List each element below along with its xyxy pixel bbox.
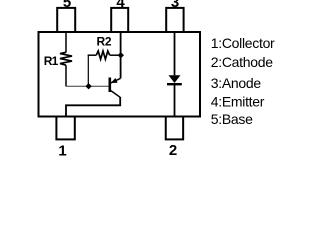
pin function list text	[211, 35, 275, 127]
svg-text:4: 4	[116, 0, 125, 11]
svg-text:1:Collector: 1:Collector	[211, 35, 275, 51]
svg-text:1: 1	[58, 142, 66, 159]
wire: pin 4 down to transistor emitter	[120, 32, 122, 78]
wire: R2 left lead horizontal	[88, 54, 97, 56]
diode D1 triangle (anode)	[169, 75, 181, 83]
wire: R2 right lead to emitter line	[110, 54, 121, 56]
wire: pin 5 to R1 top	[65, 32, 67, 53]
svg-text:2:Cathode: 2:Cathode	[211, 54, 273, 70]
resistor R2 zigzag	[96, 51, 109, 59]
svg-text:R1: R1	[44, 54, 59, 68]
wire: pin 3 down to diode anode	[174, 32, 176, 75]
transistor Q1 base bar	[109, 78, 112, 93]
pin 1 pad	[56, 117, 74, 140]
pin 4 pad	[111, 8, 128, 32]
svg-text:5:Base: 5:Base	[211, 111, 253, 127]
wire: base junction up to R2 left lead	[87, 55, 89, 87]
resistor R1 zigzag	[60, 52, 72, 65]
svg-text:4:Emitter: 4:Emitter	[211, 94, 265, 110]
svg-text:3: 3	[171, 0, 179, 11]
junction node on base rail	[86, 84, 91, 89]
transistor Q1 emitter arrowhead	[111, 78, 118, 83]
base rail wire (R1 to transistor base)	[66, 85, 109, 87]
transistor Q1 emitter diagonal with arrow into base (PNP)	[111, 78, 121, 83]
package body outline	[39, 32, 201, 117]
junction node on emitter wire	[118, 53, 123, 58]
pin 2 pad	[166, 117, 183, 140]
wire: collector down, across, down to pin 1	[66, 97, 120, 117]
svg-text:2: 2	[169, 142, 177, 159]
pin 3 pad	[166, 8, 183, 32]
svg-text:5: 5	[63, 0, 71, 11]
transistor Q1 collector diagonal	[111, 91, 120, 98]
pin 5 pad	[57, 8, 75, 32]
wire: R1 bottom to base rail	[65, 65, 67, 86]
diode D1 cathode bar	[167, 83, 182, 85]
svg-text:3:Anode: 3:Anode	[211, 75, 262, 91]
svg-text:R2: R2	[97, 35, 112, 49]
wire: diode cathode down to pin 2	[174, 85, 176, 117]
